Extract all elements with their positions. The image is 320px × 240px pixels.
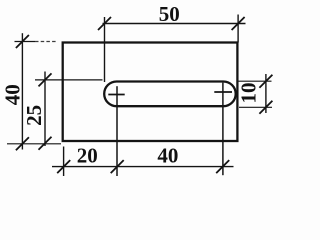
dimension 25 (left): bottom tick: [39, 137, 52, 150]
svg-text:20: 20: [77, 144, 98, 168]
svg-text:50: 50: [159, 2, 180, 26]
dimension 40 (bottom): right tick: [216, 160, 229, 173]
dimension 40 (left): top extension line faint dashed part: [35, 41, 57, 43]
dimension 10 (right): top tick: [259, 75, 272, 88]
dimension 50: dimension line: [103, 23, 246, 25]
slot left center cross: [108, 94, 124, 96]
dimension 10 (right): top extension line (slot top extended right): [239, 80, 272, 82]
dimension 40 (left): bottom tick: [16, 137, 29, 150]
dimension 50: left tick: [98, 17, 111, 30]
plate outline: [63, 43, 238, 142]
dimension 10 (right): bottom tick: [259, 101, 272, 114]
dimension 25 (left): top tick: [39, 73, 52, 86]
slot right center cross: [214, 91, 232, 93]
dimension 40 (left): bottom extension line: [7, 143, 61, 145]
svg-text:40: 40: [157, 144, 178, 168]
dimension 50: left extension line: [104, 17, 106, 82]
slot outline: [104, 82, 236, 107]
svg-text:10: 10: [237, 83, 261, 104]
dimension 25 (left): top extension line (slot top extended left): [35, 79, 103, 81]
dimension 20/40 shared tick: [111, 160, 124, 173]
dimension 10 (right): dimension line: [265, 74, 267, 113]
dimension 40 (left): top extension line: [15, 41, 36, 43]
dimension 40 (left): dimension line: [21, 33, 23, 149]
slot left center extension line (down to bottom dimension): [116, 86, 118, 176]
dimension 20: left tick: [57, 160, 70, 173]
slot right center extension line (down to bottom dimension): [222, 83, 224, 176]
dimension 50: right extension line: [237, 15, 239, 43]
bottom left extension line (from plate corner): [63, 147, 65, 177]
bottom dimension line (20 and 40): [52, 166, 234, 168]
dimension 25 (left): dimension line: [44, 72, 46, 147]
dimension 40 (left): top tick: [16, 35, 29, 48]
dimension 10 (right): bottom extension line (slot bottom extended right): [239, 106, 272, 108]
dimension 50: right tick: [232, 17, 245, 30]
svg-text:25: 25: [22, 105, 46, 126]
svg-text:40: 40: [1, 84, 25, 105]
